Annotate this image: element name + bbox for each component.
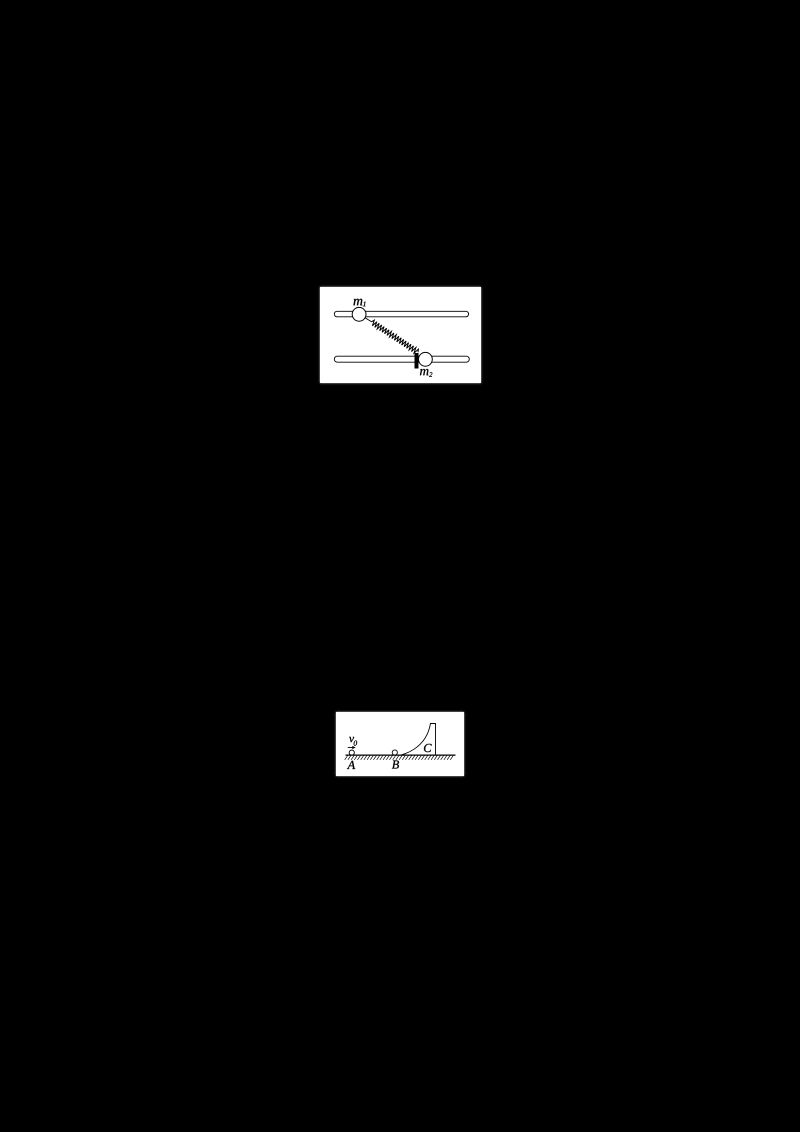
label v0 bbox=[349, 737, 354, 742]
ground hatching bbox=[345, 755, 454, 759]
ball m1 bbox=[352, 307, 366, 321]
velocity arrow bbox=[348, 747, 354, 749]
label B bbox=[392, 761, 399, 769]
label C bbox=[424, 744, 432, 752]
label m1 bbox=[353, 299, 362, 306]
ball m2 bbox=[419, 352, 433, 366]
ball A bbox=[349, 750, 354, 755]
bottom rail bbox=[334, 356, 469, 362]
ball B bbox=[392, 750, 397, 755]
spring bbox=[372, 320, 419, 353]
figure 1: two horizontal rails, balls m1 and m2 joined by a diagonal spring bbox=[320, 287, 481, 383]
figure 2: ball A launched with v0 toward ball B and curved ramp C on the ground bbox=[336, 712, 464, 776]
label m2 bbox=[420, 369, 429, 375]
top rail bbox=[334, 311, 468, 317]
stop block on bottom rail bbox=[415, 353, 419, 369]
ground line bbox=[346, 754, 456, 756]
label A bbox=[347, 761, 355, 769]
ramp C: concave curve, flat top, right wall bbox=[400, 724, 436, 756]
connector from ball m1 to spring bbox=[365, 318, 372, 322]
